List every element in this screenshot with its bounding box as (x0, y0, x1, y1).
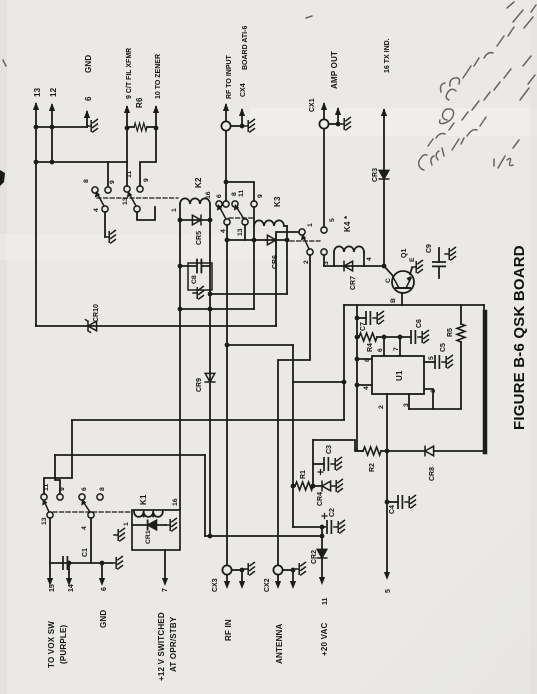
scanner edge mark (0, 170, 5, 186)
wire CR10 up to K4 contact 1 (276, 232, 299, 326)
svg-text:RF IN: RF IN (224, 619, 233, 641)
svg-text:B: B (390, 298, 397, 303)
wire pin8 stub (357, 358, 372, 360)
svg-text:R4: R4 (367, 343, 374, 352)
svg-text:8: 8 (231, 192, 238, 196)
svg-text:FIGURE B-6 QSK BOARD: FIGURE B-6 QSK BOARD (511, 245, 528, 430)
ground at CX4 (244, 119, 254, 132)
node R1 left (291, 484, 296, 489)
relay K4 contact 5 (321, 227, 327, 233)
relay K2 contact arm pivot 4 (102, 206, 108, 212)
wire pin3 stub (408, 394, 410, 409)
svg-text:C2: C2 (329, 508, 336, 517)
transistor Q1 base bar (396, 287, 410, 289)
CX2 second arrowhead (290, 581, 296, 589)
CX4 second arrowhead (239, 108, 245, 116)
ground at C3 (331, 457, 341, 470)
svg-text:CR9: CR9 (196, 378, 203, 392)
svg-text:9: 9 (59, 487, 66, 491)
svg-text:Q1: Q1 (401, 249, 408, 258)
wire left bus px357 (356, 305, 358, 449)
resistor R6 (134, 123, 147, 131)
svg-text:(PURPLE): (PURPLE) (59, 624, 68, 664)
wire px344 feed (343, 305, 345, 420)
wire K3 coil left drop (253, 226, 255, 240)
coax CX2 (273, 565, 282, 574)
diode CR1 symbol (148, 520, 157, 529)
switch arm K1b head (81, 499, 86, 506)
switch arm K4a (304, 238, 309, 249)
pencil small row2 (428, 123, 454, 146)
svg-text:AT OPR/STBY: AT OPR/STBY (169, 616, 178, 672)
relay K3 contact 9 (251, 201, 257, 207)
svg-text:11: 11 (238, 190, 245, 197)
switch arm K4a head (301, 234, 306, 241)
svg-text:9 C/T FIL XFMR: 9 C/T FIL XFMR (126, 48, 133, 99)
terminal 13 (35, 104, 37, 128)
svg-text:CR4: CR4 (317, 492, 324, 506)
svg-text:5: 5 (428, 356, 435, 360)
wire K4 coil right (363, 252, 365, 266)
svg-text:11: 11 (322, 597, 329, 605)
node C3/CR4 (311, 484, 316, 489)
svg-text:K1: K1 (139, 494, 148, 505)
svg-text:8: 8 (83, 179, 90, 183)
pencil cf curls (441, 78, 460, 92)
terminal 12 arrowhead (49, 103, 55, 111)
wire bus link py345 (227, 344, 293, 346)
node rail2 at 13 (34, 160, 39, 165)
svg-text:7: 7 (393, 347, 400, 351)
svg-text:16: 16 (172, 498, 179, 506)
CX3 second arrowhead (239, 581, 245, 589)
relay K1 pivot 4 (88, 512, 94, 518)
wire Q1 emitter lead (410, 268, 412, 274)
svg-text:4: 4 (81, 526, 88, 530)
wire CX1 shield (329, 123, 338, 125)
terminal 15 arrowhead (47, 578, 53, 586)
wire pin2 rail down (386, 451, 388, 572)
diode CR7 wire rail (324, 265, 384, 267)
svg-text:3: 3 (323, 261, 330, 265)
node CR5 left (178, 218, 183, 223)
capacitor C5 plates (435, 356, 439, 368)
svg-text:AMP OUT: AMP OUT (330, 51, 339, 89)
wire R6 left stub (127, 126, 134, 128)
relay K2 contact 9 (137, 186, 143, 192)
diode CR8 wire (387, 450, 425, 452)
pencil mid slashes (462, 69, 511, 120)
capacitor C3 plates (324, 458, 328, 470)
terminal 16 TX IND arrow (383, 110, 385, 266)
svg-text:U1: U1 (395, 370, 404, 381)
pencil 1/2 (494, 140, 519, 168)
relay K1 box (132, 510, 180, 550)
svg-text:TO VOX SW: TO VOX SW (47, 621, 56, 668)
svg-text:R2: R2 (369, 463, 376, 472)
wire CX2 shield (283, 569, 293, 571)
wire K3 coil right drop (284, 225, 287, 227)
svg-text:6: 6 (84, 96, 93, 101)
wire rail2 to contact (107, 162, 109, 186)
wire K3 right to CR9 bus (210, 293, 287, 295)
svg-text:CR1: CR1 (145, 530, 152, 544)
wire K3 left descend (253, 240, 255, 309)
wire pin7 stub (399, 337, 401, 356)
CX1 second arrowhead (335, 107, 341, 115)
svg-text:11: 11 (126, 171, 133, 178)
ground at Q1 emitter (412, 260, 422, 273)
node rail536 CR2 (320, 534, 325, 539)
ground at pivot 4 (105, 230, 115, 243)
wire pivot4 to ground (104, 212, 106, 237)
CX2 second arrow (292, 570, 294, 581)
transistor Q1 emitter inside (406, 278, 411, 288)
ground at C4 (405, 495, 415, 508)
wire pivot4 drop (90, 518, 92, 563)
switch arm B (130, 195, 136, 206)
node CR6 left (252, 238, 257, 243)
svg-text:6: 6 (101, 587, 108, 591)
relay K4 pivot 2 (307, 249, 313, 255)
svg-text:9: 9 (109, 180, 116, 184)
svg-text:6: 6 (81, 487, 88, 491)
wire py420 to K1 contact 11 (44, 420, 72, 494)
switch arm C head (217, 204, 222, 211)
svg-text:9: 9 (143, 178, 150, 182)
relay K3 contact 11 (232, 201, 238, 207)
pencil top corner marks (507, 2, 536, 28)
terminal 10 (155, 107, 157, 128)
svg-text:C1: C1 (82, 548, 89, 557)
svg-text:CR6: CR6 (272, 255, 279, 269)
node C1 at 6 (100, 561, 105, 566)
node pin7 (398, 335, 403, 340)
svg-text:3: 3 (403, 403, 410, 407)
svg-text:R6: R6 (135, 97, 144, 108)
terminal 9 arrowhead (124, 105, 130, 113)
node R4 left (355, 335, 360, 340)
terminal 9 (126, 107, 128, 128)
diode CR6 wire (254, 239, 287, 241)
diode CR10 symbol (zener) (88, 321, 97, 331)
wire R1 to CR4 (313, 485, 322, 487)
svg-text:5: 5 (385, 589, 392, 593)
relay K1 contact 6 (97, 494, 103, 500)
ground at CX2 (295, 562, 305, 575)
switch arm D (237, 208, 244, 219)
ground at CR4 (332, 479, 342, 492)
svg-text:2: 2 (378, 405, 385, 409)
pencil upper slashes (463, 27, 514, 78)
svg-text:C8: C8 (191, 275, 198, 284)
svg-text:16: 16 (205, 191, 212, 199)
diode CR1 wire (132, 524, 166, 526)
svg-text:CR3: CR3 (372, 168, 379, 182)
plus mark CR4 (318, 470, 323, 475)
relay K2 contact pivot 13 (134, 206, 140, 212)
capacitor C9 stub bottom (438, 266, 440, 278)
svg-text:ANTENNA: ANTENNA (275, 623, 284, 664)
pencil handwriting slash pair (452, 117, 486, 150)
CX3 arrow shaft (226, 575, 228, 581)
wire pivot3 stub (323, 255, 325, 266)
CX1 arrowhead (321, 102, 327, 110)
node pin2 rail (385, 449, 390, 454)
wire pin6 stub (383, 337, 385, 356)
svg-text:6: 6 (377, 348, 384, 352)
wire R4 to C6 rail (377, 336, 411, 338)
node 9 (125, 126, 130, 131)
relay K1 contact 9 (57, 494, 63, 500)
svg-text:1: 1 (430, 389, 437, 393)
mechanical linkage dashes K4 (290, 240, 320, 242)
svg-text:BOARD ATI-6: BOARD ATI-6 (242, 26, 249, 70)
ground inside K1 (166, 518, 176, 531)
mechanical linkage dashes K2 (97, 197, 178, 199)
node 10 (154, 126, 159, 131)
relay K1 coil (134, 512, 163, 517)
relay K1 contact 11 (41, 494, 47, 500)
wire R5 top stub (460, 305, 462, 324)
wire K3 right rail (286, 226, 288, 294)
wire pivot13 to C1 (49, 518, 51, 563)
svg-text:C9: C9 (426, 244, 433, 253)
scan shade bottom right gradient (300, 440, 537, 694)
wire 12 drop (51, 127, 53, 162)
terminal 14 arrowhead (66, 578, 72, 586)
transistor Q1 body (392, 271, 414, 293)
node C1 at 14 (67, 561, 72, 566)
capacitor C4 stub (387, 501, 398, 503)
svg-text:CX1: CX1 (309, 98, 316, 112)
switch arm K1b (84, 503, 90, 512)
node bus CR6 (225, 238, 230, 243)
svg-text:C3: C3 (326, 445, 333, 454)
svg-text:6: 6 (216, 194, 223, 198)
svg-text:10 TO ZENER: 10 TO ZENER (155, 54, 162, 99)
mechanical linkage dashes K1 (53, 511, 130, 513)
svg-text:GND: GND (84, 55, 93, 73)
ground at C2 (334, 520, 344, 533)
wire 13 long drop (35, 127, 37, 326)
capacitor C6 plates (411, 331, 415, 343)
wire px293 drop (292, 345, 294, 527)
wire 9 to contact 11 (126, 128, 128, 186)
pencil right marks (520, 56, 535, 100)
wire K2 pin16 bus down (CR9) (209, 204, 211, 536)
CX4 second arrow (241, 110, 243, 126)
capacitor C4 plates (398, 496, 402, 508)
CX4 arrow shaft (225, 105, 227, 121)
pencil figure 8 (440, 89, 456, 123)
diode CR3 symbol (379, 170, 389, 179)
capacitor C2 plates (327, 521, 331, 533)
CX3 arrowhead (224, 581, 230, 589)
diode CR5 (180, 219, 210, 221)
CX1 arrow shaft (323, 104, 325, 119)
wire K2 pin1 bus down to K1 (179, 204, 181, 509)
wire CR2 drop (321, 527, 323, 577)
switch arm C (220, 208, 226, 219)
wire pivot4 CX3 bus (226, 225, 228, 565)
svg-text:14: 14 (68, 584, 75, 592)
transistor Q1 collector inside (393, 277, 399, 288)
node K2 rail right (208, 307, 213, 312)
terminal 12 (51, 105, 53, 128)
svg-text:CR8: CR8 (429, 467, 436, 481)
wire CX1 to K4 contact 5 (323, 129, 325, 227)
svg-text:CX2: CX2 (264, 578, 271, 592)
wire U1 block right edge (dark scan line) (483, 305, 485, 451)
svg-text:13: 13 (122, 197, 129, 205)
wire pin1 route (424, 389, 433, 409)
node CX1 shield (336, 122, 341, 127)
wire rail 13-12 lower (36, 161, 127, 163)
svg-text:4: 4 (220, 229, 227, 233)
switch arm B head (127, 191, 132, 198)
wire C1 rail (50, 562, 112, 564)
wire pin3 rail to R5 (409, 342, 461, 409)
terminal 5 arrowhead (384, 572, 390, 580)
wire py455 to K1 contact 9 (55, 455, 60, 494)
wire pin5 stub (424, 361, 435, 363)
terminal 6 (86, 112, 88, 127)
svg-text:16 TX IND.: 16 TX IND. (384, 38, 391, 73)
coax CX1 (319, 119, 328, 128)
svg-text:+12 V SWITCHED: +12 V SWITCHED (157, 612, 166, 681)
pencil handwriting C-curl row (419, 148, 444, 170)
svg-text:4: 4 (366, 257, 373, 261)
node rail2 at 12 (50, 160, 55, 165)
resistor R4 (359, 333, 377, 341)
resistor R2 (363, 447, 381, 455)
plus mark C2 (322, 514, 327, 519)
svg-text:CR10: CR10 (93, 304, 100, 322)
node CX3 shield (240, 568, 245, 573)
ground at terminal 6 (87, 119, 97, 132)
diode CR2 symbol (317, 549, 327, 558)
node on rail at 13 (34, 125, 39, 130)
wire R2 left corner (313, 440, 363, 451)
resistor R5 (457, 324, 465, 342)
svg-text:9: 9 (257, 194, 264, 198)
capacitor C3 stub (313, 463, 324, 465)
terminal 7 arrowhead (162, 578, 168, 586)
relay K2 contact 8 (92, 187, 98, 193)
wire R1 left stub (293, 485, 295, 487)
svg-text:C6: C6 (416, 319, 423, 328)
svg-text:4: 4 (93, 208, 100, 212)
svg-text:C: C (385, 278, 392, 283)
capacitor C7 stub (357, 317, 366, 319)
relay K3 contact mid (223, 201, 229, 207)
wire rail py536 (205, 535, 322, 537)
svg-text:4: 4 (363, 386, 370, 390)
node pin8 (355, 357, 360, 362)
mechanical linkage dashes K3 (229, 217, 253, 219)
svg-text:2: 2 (303, 260, 310, 264)
wire pivot13 drop (244, 225, 246, 240)
switch arm K1a head (42, 499, 47, 506)
switch arm D head (234, 204, 239, 211)
node CX4 shield (240, 124, 245, 129)
terminal 14 (68, 563, 70, 578)
diode CR6 symbol (267, 235, 276, 245)
svg-text:K2: K2 (194, 177, 203, 188)
wire bus link to CR6 (227, 239, 254, 241)
CX2 arrowhead (275, 581, 281, 589)
wire C3 feed (312, 440, 314, 486)
svg-text:1: 1 (307, 223, 314, 227)
node rail536 CR9 (208, 534, 213, 539)
svg-text:5: 5 (329, 218, 336, 222)
node CX4 branch (224, 180, 229, 185)
svg-text:13: 13 (237, 228, 244, 236)
relay K1 pivot 13 (47, 512, 53, 518)
wire pin4 stub (357, 384, 372, 386)
wire CX4 to shield node (231, 125, 242, 127)
node on rail at 12 (50, 125, 55, 130)
wire R6 right stub (147, 126, 156, 128)
coax CX4 (221, 121, 230, 130)
terminal 6 arrowhead (84, 110, 90, 118)
op-amp U1 box (372, 356, 424, 394)
terminal 15 (49, 563, 51, 578)
relay K2 contact top2 (105, 187, 111, 193)
svg-text:13: 13 (33, 87, 42, 97)
svg-text:K4 *: K4 * (343, 215, 352, 232)
node C2/CR2 (320, 525, 325, 530)
svg-text:12: 12 (49, 87, 58, 97)
CX3 second arrow (241, 570, 243, 581)
relay K3 contact 6 (216, 201, 222, 207)
relay K4 contact 1 (299, 229, 305, 235)
svg-text:CR7: CR7 (350, 276, 357, 290)
pencil stray dash (3, 16, 312, 66)
ground at CX3 (244, 562, 254, 575)
wire K4 coil left (333, 252, 335, 266)
svg-text:C7: C7 (360, 322, 367, 331)
relay K3 coil (254, 220, 284, 226)
node C7 (355, 316, 360, 321)
wire K2 assembly bottom rail (180, 308, 254, 310)
diode CR5 symbol (192, 215, 201, 225)
node CR5 right (208, 218, 213, 223)
relay K3 pivot 4 (224, 219, 230, 225)
svg-text:GND: GND (99, 610, 108, 628)
switch arm A head (95, 191, 100, 198)
svg-text:R5: R5 (447, 328, 454, 337)
transistor Q1 emitter arrow (406, 276, 411, 282)
wire px205 (204, 455, 206, 536)
wire R4 left stub (357, 336, 359, 338)
scan shade right column (530, 0, 537, 694)
scan shading left edge (0, 0, 7, 694)
wire pivot13 drop (137, 207, 155, 220)
ground at C5 (442, 355, 452, 368)
ground left of K1 (114, 528, 124, 541)
wire C2 run (293, 526, 325, 528)
coax CX3 (222, 565, 231, 574)
capacitor C7 plates (366, 312, 370, 324)
CX4 arrowhead (223, 103, 229, 111)
terminal 7 (164, 550, 166, 578)
relay K3 pivot 13 (242, 219, 248, 225)
node CX2 shield (291, 568, 296, 573)
svg-text:CR5: CR5 (196, 231, 203, 245)
relay K1 contact 8 (79, 494, 85, 500)
